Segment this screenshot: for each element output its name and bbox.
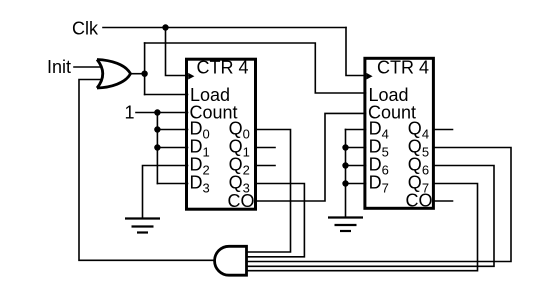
wire U2 Q6 to AND input 4 — [247, 166, 495, 267]
svg-text:CO: CO — [228, 191, 255, 211]
svg-text:CTR 4: CTR 4 — [377, 58, 429, 78]
wire node to U1 Load — [145, 94, 188, 96]
counter U1 box — [187, 59, 256, 209]
wire U1 Q2 stub — [256, 165, 276, 167]
svg-text:1: 1 — [125, 103, 135, 123]
wire to U1 D1 — [157, 147, 187, 149]
wire U1 D2 to ground — [143, 166, 188, 219]
wire U2 Q5 to AND input 3 — [247, 148, 512, 262]
svg-text:CO: CO — [406, 191, 433, 211]
wire node to U2 Load — [145, 43, 366, 93]
wire U2 Q7 to AND input 5 — [247, 184, 478, 271]
ground symbol left — [125, 219, 160, 233]
node junction dot D0 — [154, 126, 160, 132]
counter U1 clock arrow — [188, 73, 194, 80]
node junction dot 1/Count — [154, 109, 160, 115]
node junction dot D7 — [342, 180, 348, 186]
and-gate G2 (mirrored, output left) — [215, 246, 247, 275]
wire to U1 D3 — [157, 183, 187, 185]
or-gate G1 — [97, 60, 131, 89]
wire U2 D7 stub — [346, 183, 366, 185]
wire OR output to node — [131, 73, 145, 75]
wire to U1 D0 — [157, 129, 187, 131]
wire constant 1 to U1 Count — [136, 112, 188, 114]
wire U1 Q1 stub — [256, 147, 276, 149]
wire Clk branch down to U2 clock — [346, 28, 366, 76]
wire U1 Q3 down to AND input 2 — [247, 184, 305, 257]
wire U2 D6 stub — [346, 165, 366, 167]
node junction dot D6 — [342, 162, 348, 168]
wire AND output up to OR lower input — [79, 80, 213, 261]
wire U1 Q0 down to AND input 1 — [247, 130, 291, 253]
wire Clk horizontal — [103, 27, 346, 29]
wire Clk branch down to U1 clock — [166, 28, 188, 76]
wire U2 D4 stub — [346, 129, 366, 131]
counter U2 clock arrow — [366, 73, 372, 80]
node junction dot D5 — [342, 144, 348, 150]
wire Init to OR input — [74, 66, 101, 68]
wire U2 D bus vertical to ground — [345, 130, 347, 218]
svg-text:CTR 4: CTR 4 — [197, 58, 249, 78]
wire node vertical — [144, 43, 146, 95]
wire U2 D5 stub — [346, 147, 366, 149]
counter U2 box — [365, 58, 434, 208]
node junction dot Clk — [162, 24, 168, 30]
svg-text:Init: Init — [47, 57, 71, 77]
wire U2 CO stub — [433, 200, 452, 202]
wire constant-1 vertical bus — [156, 113, 158, 184]
wire U2 Q4 stub — [433, 129, 452, 131]
node junction dot OR output — [141, 71, 147, 77]
node junction dot D1 — [154, 144, 160, 150]
ground symbol right — [328, 218, 363, 232]
svg-text:Clk: Clk — [72, 19, 99, 39]
wire U1 CO to U2 Count — [256, 113, 366, 201]
